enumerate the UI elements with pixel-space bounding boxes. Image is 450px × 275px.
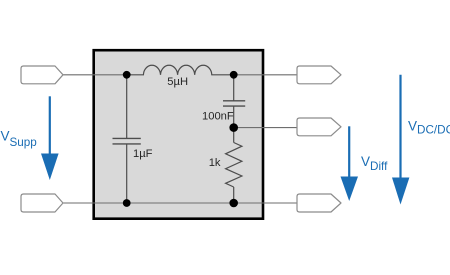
arrow V_Supp xyxy=(49,96,51,154)
svg-text:1k: 1k xyxy=(209,157,221,169)
inductor L1 5uH xyxy=(127,65,234,75)
junction node bottom-left xyxy=(123,199,131,207)
filter module box xyxy=(94,50,263,219)
junction node top-right xyxy=(230,71,238,79)
connector bottom-left xyxy=(21,194,63,212)
capacitor C2 100nF xyxy=(223,100,245,102)
svg-text:VDiff: VDiff xyxy=(361,154,388,173)
wire 100nF branch vertical xyxy=(233,75,235,101)
junction node middle xyxy=(229,123,238,132)
connector middle-right xyxy=(297,118,341,136)
svg-text:5µH: 5µH xyxy=(167,76,188,88)
junction node top-left xyxy=(123,71,131,79)
arrow V_DC/DC xyxy=(399,75,401,178)
connector bottom-right xyxy=(297,194,341,212)
svg-text:100nF: 100nF xyxy=(202,111,234,123)
arrow V_Diff xyxy=(348,126,350,177)
resistor R1 1k xyxy=(226,143,242,188)
wire top-left input xyxy=(63,74,127,76)
svg-text:VDC/DC: VDC/DC xyxy=(408,118,450,136)
svg-text:VSupp: VSupp xyxy=(1,128,38,149)
wire middle-right output xyxy=(234,127,297,129)
wire 1uF branch vertical xyxy=(126,75,128,138)
wire bottom rail xyxy=(63,202,297,204)
connector top-left xyxy=(21,66,63,84)
connector top-right xyxy=(297,66,341,84)
wire top-right output xyxy=(234,74,297,76)
capacitor C1 1uF xyxy=(113,137,141,139)
svg-text:1µF: 1µF xyxy=(133,148,153,160)
junction node bottom-right xyxy=(229,199,238,208)
